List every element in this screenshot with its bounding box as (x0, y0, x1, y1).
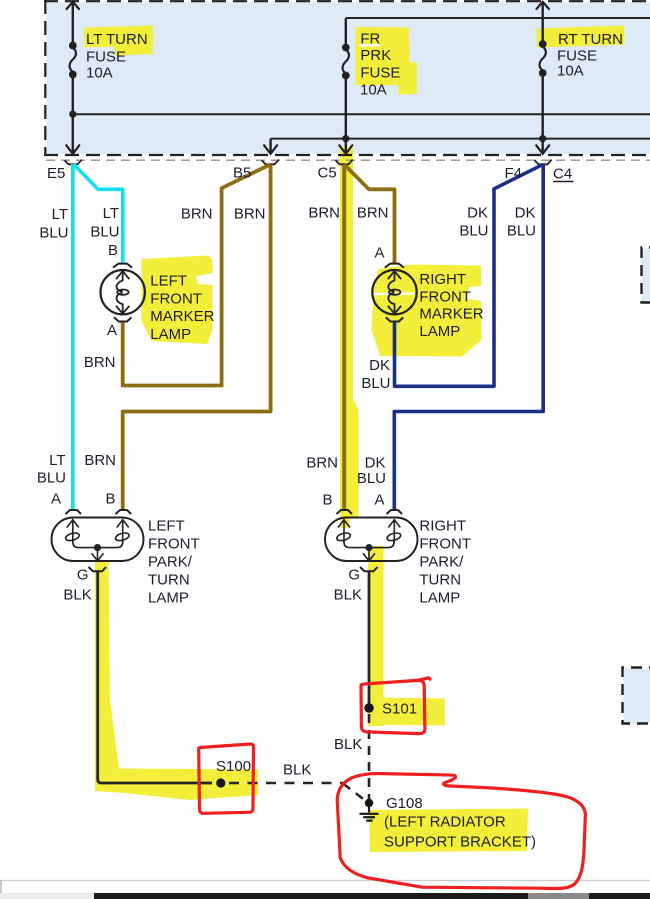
svg-text:BLK: BLK (334, 736, 362, 753)
svg-text:BRN: BRN (84, 354, 116, 371)
svg-text:RT TURN: RT TURN (558, 31, 623, 48)
svg-text:F4: F4 (505, 165, 523, 182)
svg-text:BLU: BLU (90, 224, 119, 241)
svg-text:RIGHT: RIGHT (419, 271, 466, 288)
svg-text:BRN: BRN (234, 206, 266, 223)
svg-text:S100: S100 (216, 758, 251, 775)
svg-text:BLU: BLU (507, 223, 536, 240)
svg-text:B5: B5 (233, 165, 251, 182)
svg-text:DK: DK (369, 357, 390, 374)
svg-text:BLU: BLU (39, 225, 68, 242)
svg-text:LAMP: LAMP (148, 590, 189, 607)
svg-text:BLK: BLK (63, 586, 91, 603)
svg-text:G: G (348, 567, 360, 584)
svg-text:BRN: BRN (357, 205, 389, 222)
svg-text:BRN: BRN (308, 205, 340, 222)
svg-text:LEFT: LEFT (150, 273, 187, 290)
svg-text:10A: 10A (557, 63, 584, 80)
svg-text:DK: DK (467, 205, 488, 222)
svg-text:S101: S101 (382, 701, 417, 718)
svg-text:B: B (322, 492, 332, 509)
svg-text:MARKER: MARKER (419, 306, 483, 323)
svg-text:BRN: BRN (181, 206, 213, 223)
svg-text:A: A (374, 492, 384, 509)
svg-text:10A: 10A (86, 65, 113, 82)
svg-text:LT TURN: LT TURN (86, 31, 148, 48)
svg-text:TURN: TURN (419, 572, 461, 589)
svg-text:LT: LT (49, 452, 65, 469)
svg-text:TURN: TURN (148, 572, 190, 589)
svg-text:FUSE: FUSE (86, 49, 126, 66)
svg-text:G: G (77, 567, 89, 584)
svg-text:SUPPORT BRACKET): SUPPORT BRACKET) (384, 833, 536, 850)
svg-text:FR: FR (360, 31, 380, 48)
svg-text:BRN: BRN (306, 455, 338, 472)
svg-text:E5: E5 (47, 165, 65, 182)
svg-text:DK: DK (515, 205, 536, 222)
svg-text:C5: C5 (318, 165, 337, 182)
svg-text:B: B (108, 242, 118, 259)
svg-text:PARK/: PARK/ (419, 554, 464, 571)
svg-text:B: B (105, 491, 115, 508)
svg-text:DK: DK (365, 455, 386, 472)
svg-text:LEFT: LEFT (148, 518, 185, 535)
svg-text:LT: LT (103, 205, 119, 222)
svg-text:10A: 10A (360, 82, 387, 99)
svg-text:(LEFT RADIATOR: (LEFT RADIATOR (384, 814, 506, 831)
svg-text:PRK: PRK (360, 47, 391, 64)
svg-text:A: A (374, 245, 384, 262)
svg-text:LAMP: LAMP (419, 590, 460, 607)
svg-text:G108: G108 (386, 795, 423, 812)
svg-text:LAMP: LAMP (150, 326, 191, 343)
svg-text:C4: C4 (553, 166, 572, 183)
svg-text:FRONT: FRONT (150, 290, 202, 307)
svg-text:BLK: BLK (334, 586, 362, 603)
svg-text:BRN: BRN (84, 452, 116, 469)
svg-text:A: A (107, 322, 117, 339)
svg-text:LAMP: LAMP (419, 323, 460, 340)
svg-text:BLU: BLU (357, 470, 386, 487)
svg-text:FRONT: FRONT (148, 536, 200, 553)
svg-text:BLU: BLU (361, 375, 390, 392)
svg-text:FUSE: FUSE (360, 65, 400, 82)
svg-text:BLU: BLU (459, 223, 488, 240)
svg-text:LT: LT (52, 206, 68, 223)
svg-text:RIGHT: RIGHT (419, 518, 466, 535)
svg-text:PARK/: PARK/ (148, 554, 193, 571)
svg-text:BLK: BLK (283, 761, 311, 778)
svg-text:MARKER: MARKER (150, 308, 214, 325)
svg-text:FRONT: FRONT (419, 536, 471, 553)
svg-text:FRONT: FRONT (419, 288, 471, 305)
svg-text:A: A (51, 491, 61, 508)
svg-text:BLU: BLU (37, 469, 66, 486)
